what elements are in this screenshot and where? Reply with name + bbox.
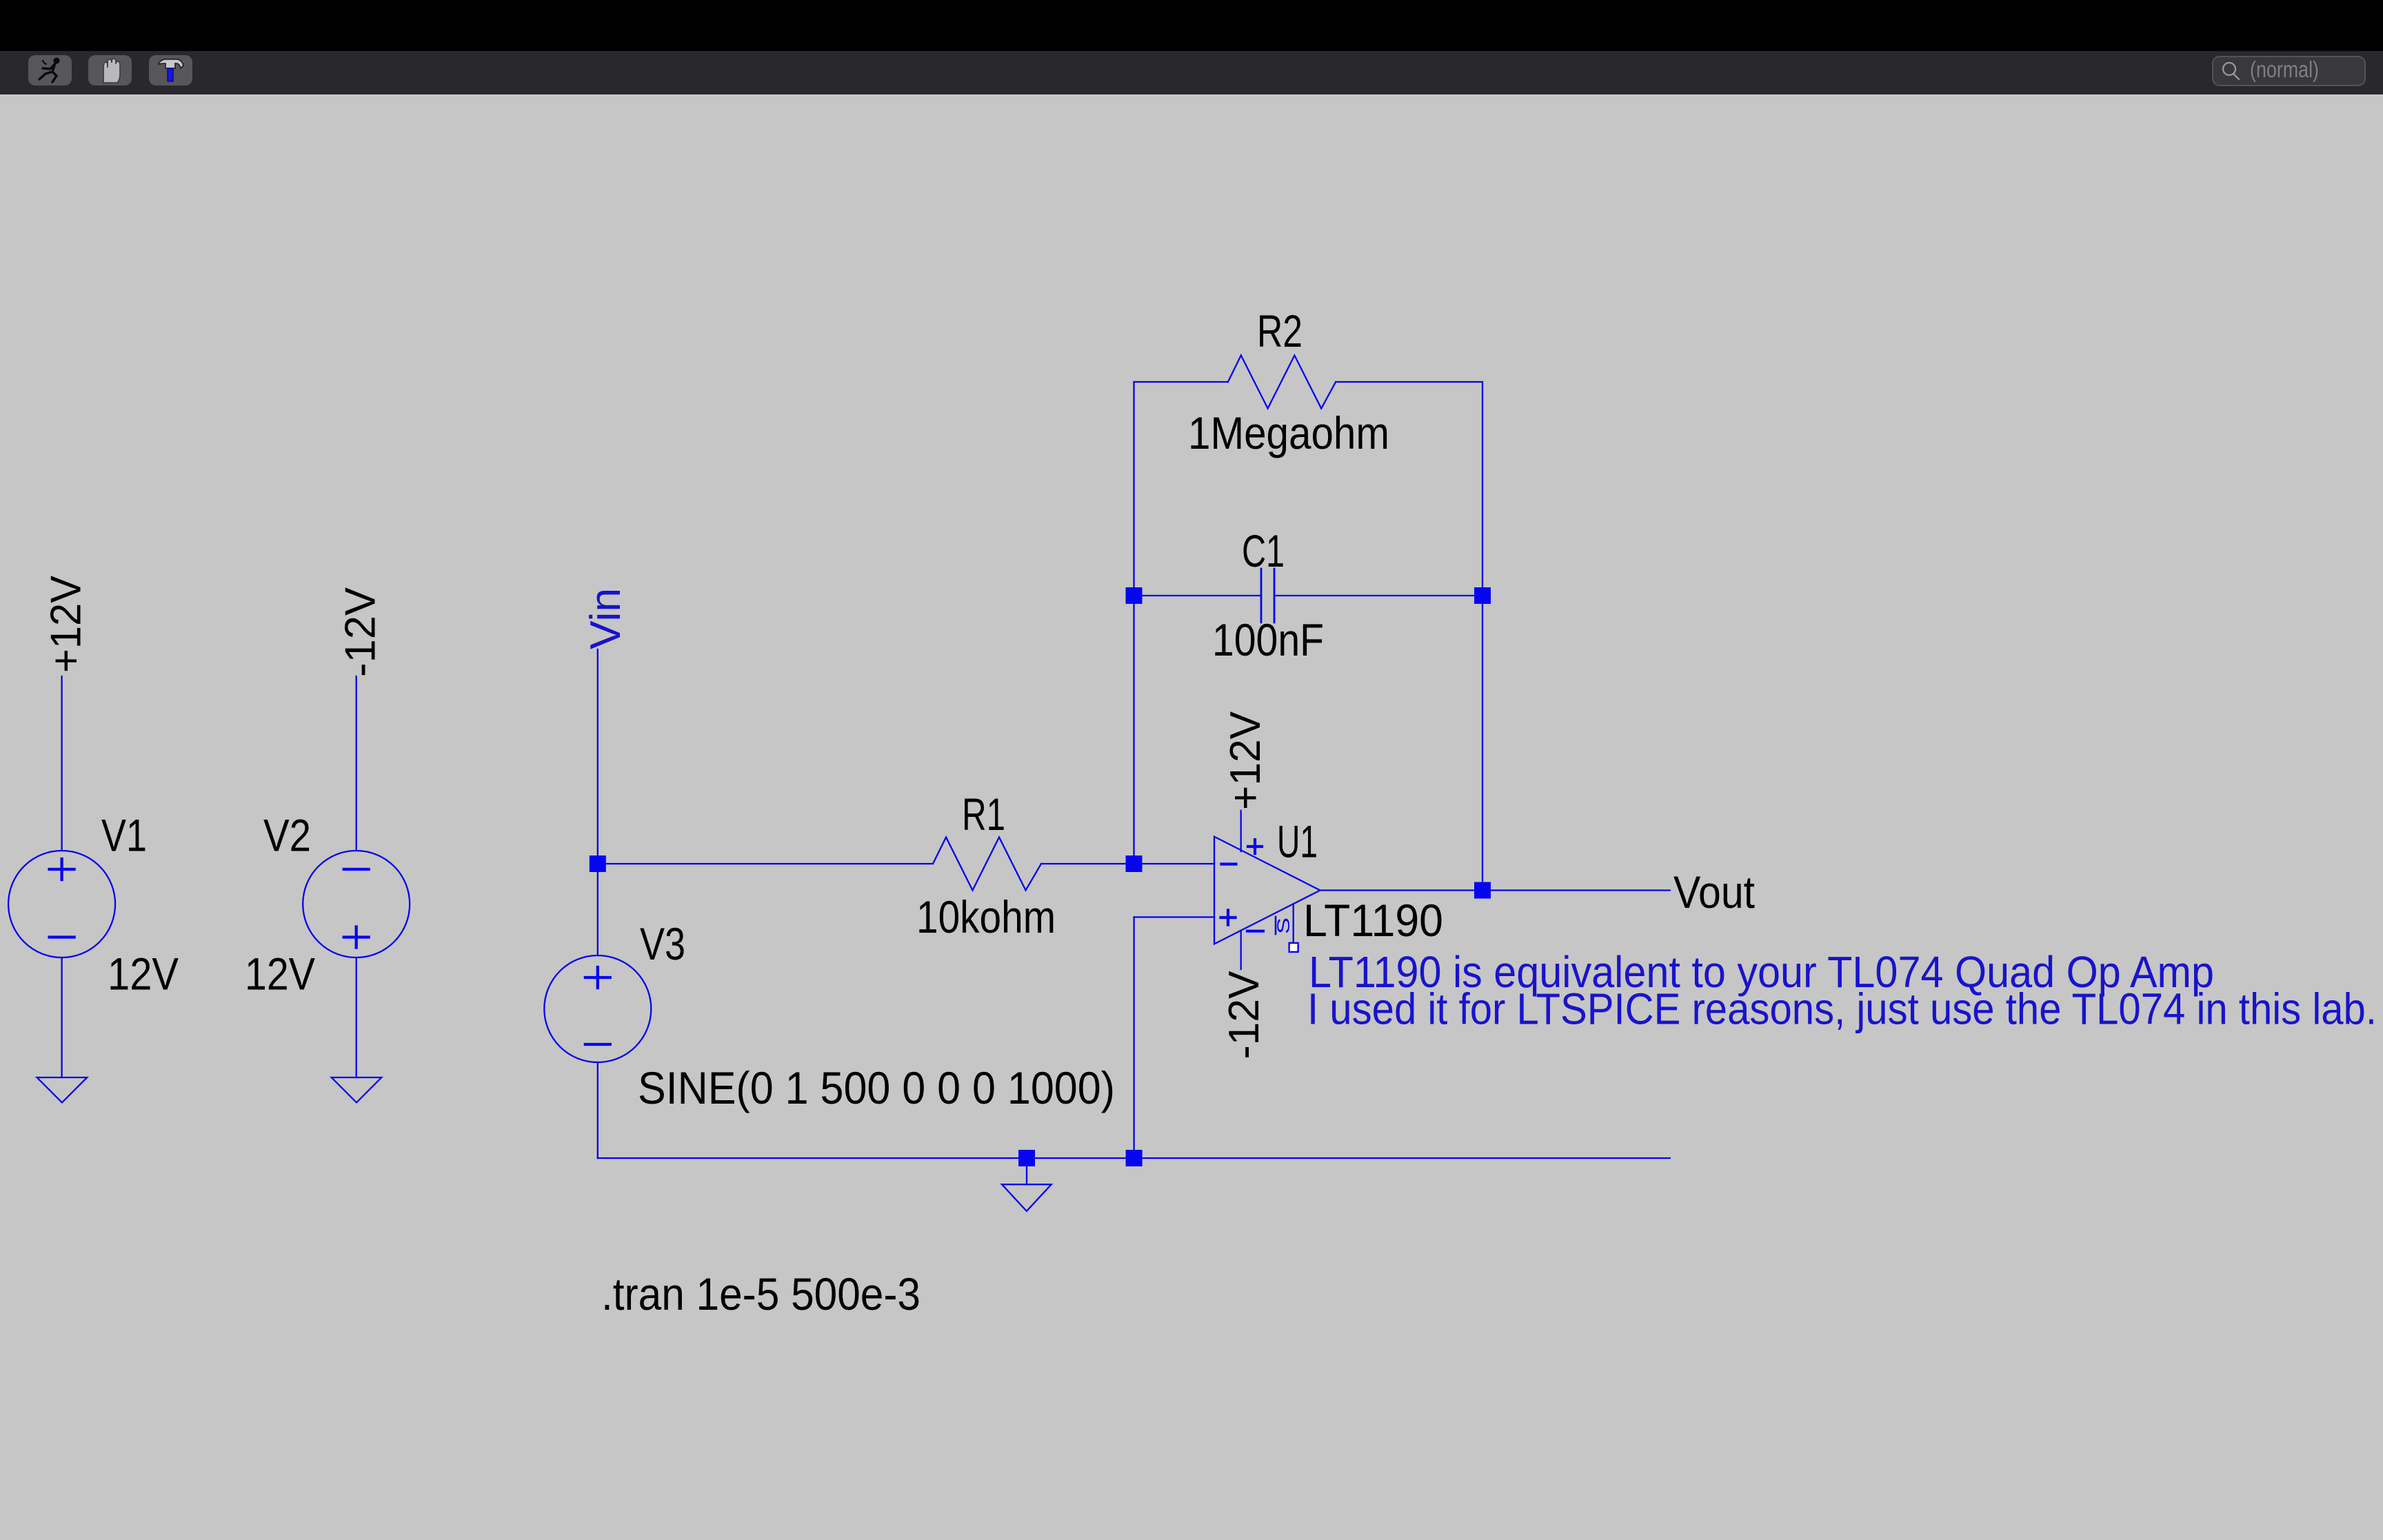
U1 shutdown pin label S-bar: [1274, 917, 1294, 934]
svg-text:+12V: +12V: [43, 575, 90, 673]
wire R1 to opamp: [1041, 863, 1214, 864]
svg-text:V2: V2: [263, 810, 311, 861]
wire bottom rail: [598, 1157, 1670, 1159]
voltage source V3: [544, 955, 651, 1062]
toolbar button hand: [88, 55, 132, 85]
voltage source V1: [8, 851, 115, 958]
wire output: [1320, 889, 1670, 891]
svg-text:100nF: 100nF: [1212, 614, 1324, 665]
svg-text:-12V: -12V: [337, 587, 385, 677]
svg-text:12V: 12V: [245, 949, 315, 1000]
ground stub: [1026, 1158, 1027, 1184]
wire R2 right lead: [1336, 381, 1482, 383]
U1 shutdown open terminal: [1289, 943, 1298, 952]
svg-text:LT1190: LT1190: [1303, 895, 1443, 946]
V2 minus (top): [344, 868, 369, 871]
V1 minus: [50, 935, 74, 938]
svg-text:.tran 1e-5 500e-3: .tran 1e-5 500e-3: [601, 1268, 921, 1319]
svg-text:R1: R1: [962, 789, 1005, 840]
U1 shutdown pin line: [1293, 904, 1294, 943]
wire Vin vertical: [597, 649, 599, 955]
wire V1 bottom: [61, 958, 62, 1077]
svg-text:R2: R2: [1257, 305, 1303, 356]
svg-text:Vin: Vin: [582, 588, 630, 649]
U1 inverting input marker: [1222, 862, 1236, 865]
toolbar: [0, 51, 2383, 94]
ground V2: [332, 1077, 382, 1102]
voltage source V2: [303, 851, 410, 958]
resistor R1: [933, 838, 1041, 891]
wire V2 top: [356, 676, 357, 851]
resistor R2: [1228, 356, 1336, 409]
svg-text:C1: C1: [1242, 525, 1285, 576]
toolbar search box: [2213, 57, 2365, 85]
wire C1 left lead: [1134, 595, 1262, 596]
wire R2 left lead: [1134, 381, 1228, 383]
node junction R1 / feedback: [1126, 855, 1143, 872]
wire opamp + input horizontal: [1134, 916, 1214, 918]
V3 plus: [585, 967, 610, 988]
wire opamp + input vertical: [1133, 917, 1134, 1158]
U1 V+ pin: [1240, 811, 1242, 851]
U1 non-inverting input marker: [1221, 911, 1236, 925]
V1 plus: [50, 859, 74, 880]
svg-text:V1: V1: [101, 810, 147, 861]
ground symbol: [1002, 1184, 1052, 1211]
wire V2 bottom: [356, 958, 357, 1077]
svg-text:(normal): (normal): [2250, 57, 2319, 82]
svg-text:I used it for LTSPICE reasons,: I used it for LTSPICE reasons, just use …: [1307, 984, 2377, 1034]
capacitor C1 plates: [1261, 569, 1274, 622]
wire feedback right vertical: [1482, 382, 1483, 891]
svg-text:U1: U1: [1277, 816, 1318, 867]
svg-text:12V: 12V: [108, 949, 179, 1000]
svg-text:-12V: -12V: [1220, 971, 1268, 1060]
V2 plus (bottom): [344, 927, 369, 948]
wire V3 bottom: [597, 1062, 599, 1158]
wire C1 right lead: [1274, 595, 1482, 596]
node junction C1 left: [1126, 587, 1143, 604]
svg-text:+12V: +12V: [1222, 711, 1269, 810]
wire Vin node to R1: [598, 863, 933, 864]
ground V1: [37, 1077, 88, 1102]
svg-text:SINE(0 1 500 0 0 0 1000): SINE(0 1 500 0 0 0 1000): [638, 1062, 1115, 1113]
toolbar button hammer: [149, 55, 192, 85]
title bar: [0, 0, 2383, 51]
toolbar button run: [28, 55, 72, 85]
svg-text:S: S: [1274, 918, 1294, 934]
node junction C1 right: [1474, 587, 1491, 604]
U1 V- marker: [1247, 930, 1263, 933]
U1 V- pin: [1240, 931, 1242, 969]
wire V1 top: [61, 676, 62, 851]
node junction rail opamp: [1126, 1150, 1143, 1166]
svg-text:10kohm: 10kohm: [916, 891, 1056, 942]
wire feedback left vertical: [1133, 382, 1134, 864]
svg-text:V3: V3: [640, 918, 685, 969]
node junction Vin/R1: [590, 855, 606, 872]
node junction output: [1474, 882, 1491, 899]
node junction rail ground: [1018, 1150, 1035, 1166]
svg-text:1Megaohm: 1Megaohm: [1188, 407, 1389, 458]
op-amp U1 triangle: [1214, 837, 1320, 944]
svg-text:Vout: Vout: [1673, 867, 1755, 918]
V3 minus: [585, 1043, 610, 1046]
U1 V+ marker: [1248, 840, 1262, 853]
